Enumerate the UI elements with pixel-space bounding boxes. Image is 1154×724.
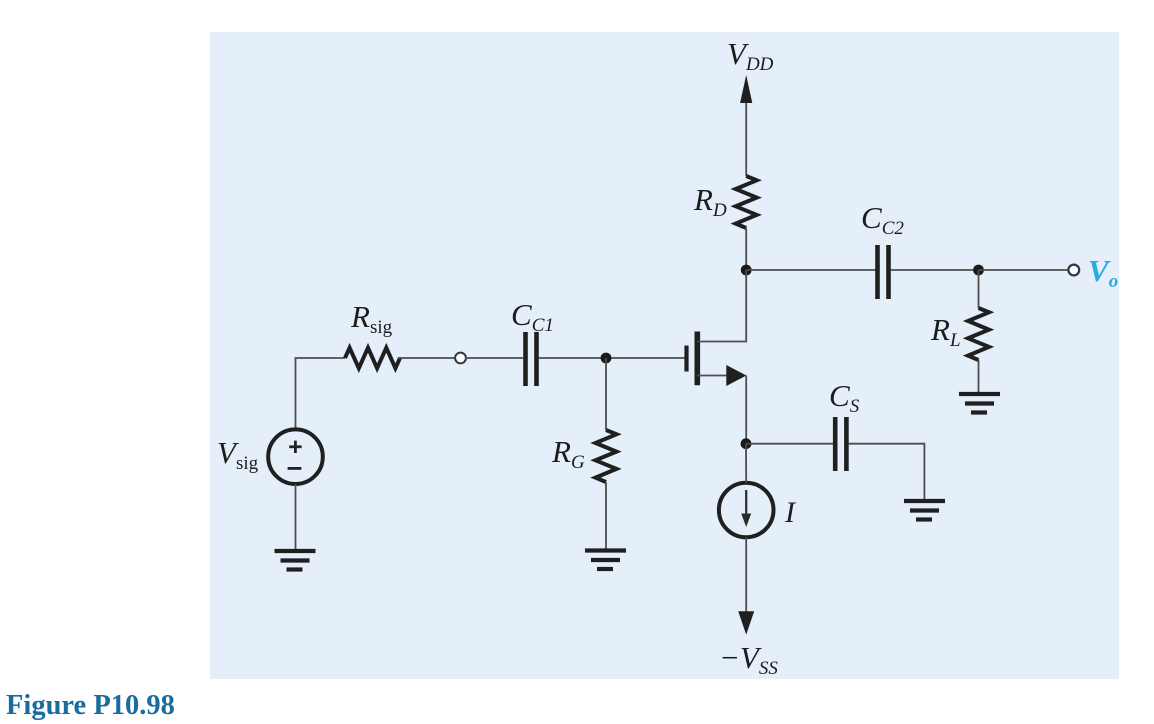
label CC2 [861,200,904,239]
resistor RG [596,430,617,482]
wire output node to RL [978,270,980,308]
svg-text:Figure P10.98: Figure P10.98 [6,690,175,721]
label CS [829,378,860,417]
wire Vsig to ground [295,484,297,549]
wire RL to ground [978,360,980,393]
ground below CS [904,501,945,520]
transistor Q1 gate bar [684,346,688,372]
Vsig minus sign [288,467,302,470]
resistor RL [968,308,989,360]
current source I circle [719,483,774,538]
wire source node to current source [745,444,747,483]
current source arrow [741,490,751,527]
label Rsig [350,299,393,338]
terminal Vo open circle [1068,265,1079,276]
panel background [210,32,1119,679]
wire source node to CS [746,443,833,445]
transistor Q1 drain lead [697,270,746,342]
capacitor CS [835,417,846,471]
capacitor CC2 [878,245,889,299]
label RD [693,182,727,221]
capacitor CC1 [526,332,537,386]
VSS arrow (down) [738,611,754,634]
wire Vsig top [296,358,346,429]
wire RG to ground [605,482,607,549]
VDD arrow (up) [740,75,752,176]
wire source to source node [745,376,747,444]
ground below RG [585,551,626,570]
wire RD bottom to drain node [745,228,747,270]
label Vo [1088,253,1118,292]
transistor Q1 channel bar [694,332,700,386]
wire CC1 to gate [539,357,685,359]
wire gate node to RG [605,358,607,430]
label RG [551,434,585,473]
wire current source to VSS arrow [745,537,747,614]
source Vsig circle [268,429,323,484]
wire CS to right corner and down to ground [848,444,924,499]
ground below Vsig [275,551,316,570]
label Vsig [217,435,259,474]
figure caption [6,690,175,721]
label I [784,496,797,529]
wire input terminal to CC1 [465,357,523,359]
resistor Rsig [345,348,400,368]
label CC1 [511,297,554,336]
wire Rsig to input terminal [398,357,455,359]
label RL [930,312,961,351]
terminal input open circle [455,353,466,364]
node gate junction dot [601,353,612,364]
label VDD [727,36,774,75]
resistor RD [736,176,757,228]
Vsig plus sign [289,441,301,453]
node source junction dot [741,438,752,449]
wire drain node to CC2 [746,269,875,271]
wire output node to Vo terminal [979,269,1068,271]
label -VSS [719,640,778,679]
node output junction dot [973,265,984,276]
wire CC2 to output node [891,269,979,271]
ground below RL [959,394,1000,413]
node drain junction dot [741,265,752,276]
transistor Q1 source lead [697,365,746,386]
